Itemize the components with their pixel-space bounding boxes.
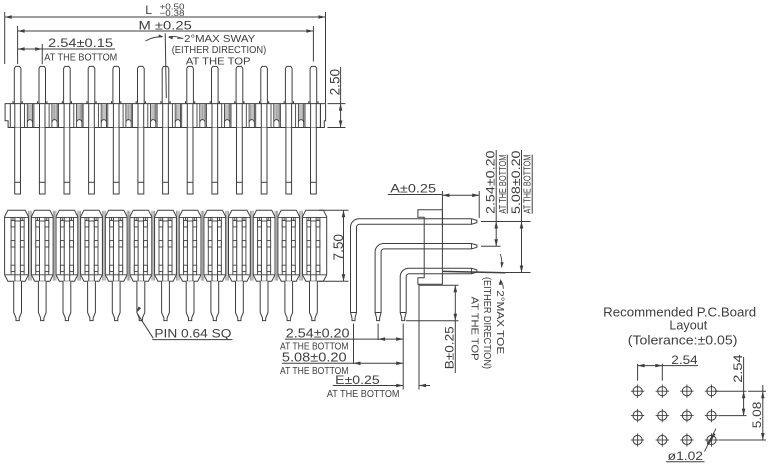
svg-text:AT THE BOTTOM: AT THE BOTTOM [44, 52, 117, 63]
view2 lower pin 8 [186, 281, 194, 320]
dim B line [454, 285, 456, 373]
svg-text:−0.38: −0.38 [160, 8, 185, 18]
view2 lower pin 4 [88, 281, 96, 320]
view1 lower pin 10 [237, 128, 243, 195]
view3 bent pin row 2 [375, 244, 477, 321]
view2 lower pin 2 [38, 281, 46, 320]
view2 housing segment 3 [56, 210, 78, 281]
svg-text:PIN 0.64 SQ: PIN 0.64 SQ [154, 327, 231, 341]
sway right arc leader [169, 36, 183, 38]
view3 bottom ext body [418, 284, 420, 389]
dim row1-row2 note underline [506, 155, 508, 214]
view2 housing segment 10 [229, 210, 251, 281]
view1 swayed pin outline [165, 33, 166, 98]
svg-text:E±0.25: E±0.25 [335, 373, 380, 387]
dim M line [18, 30, 314, 32]
dim 2.54±0.15 line [18, 48, 115, 50]
toe upper arc [500, 254, 502, 267]
view1 lower pin 13 [311, 128, 317, 195]
view3 bottom ext pin3 [402, 324, 404, 390]
svg-text:AT THE BOTTOM: AT THE BOTTOM [327, 389, 400, 400]
view1 upper pin 3 [64, 66, 71, 103]
view2 housing segment 5 [105, 210, 127, 281]
pcb dim 2.54 vert ext [715, 390, 747, 392]
view2 lower pin 11 [260, 281, 268, 320]
svg-text:2.50: 2.50 [327, 69, 342, 96]
view1 upper pin 8 [187, 66, 194, 103]
view1 lower pin 1 [15, 128, 21, 195]
view1 lower pin 7 [163, 128, 169, 195]
view2 lower pin 3 [63, 281, 71, 320]
view3 bent pin row 1 [351, 219, 477, 321]
dim E line [333, 385, 403, 387]
svg-text:2.54: 2.54 [731, 354, 745, 383]
view1 upper pin 9 [212, 66, 219, 103]
view1 lower pin 2 [39, 128, 45, 195]
pcb hole underline [666, 461, 705, 463]
view2 lower pin 10 [236, 281, 244, 320]
dim bottom 2.54 line [285, 338, 403, 340]
view1 insulator body outline [5, 104, 326, 128]
view2 housing segment 13 [303, 210, 327, 281]
view3 right ext row1 [481, 221, 531, 223]
svg-text:(Tolerance:±0.05): (Tolerance:±0.05) [628, 334, 738, 348]
view1 upper pin 5 [113, 66, 120, 103]
sway left arc [146, 37, 163, 41]
svg-text:L: L [145, 3, 152, 17]
view2 housing segment 11 [253, 210, 275, 281]
view1 upper pin 10 [236, 66, 243, 103]
view1 body cell walls [13, 101, 320, 127]
view2 housing segment 4 [81, 210, 103, 281]
svg-text:2.54±0.15: 2.54±0.15 [48, 36, 113, 50]
svg-text:5.08±0.20: 5.08±0.20 [282, 350, 347, 364]
dim A line [388, 194, 442, 196]
svg-text:5.08: 5.08 [750, 402, 764, 429]
dim L extension lines [4, 12, 6, 64]
pin size leader [138, 314, 154, 338]
view1 lower pin 4 [89, 128, 95, 195]
svg-text:(EITHER DIRECTION): (EITHER DIRECTION) [172, 44, 267, 56]
view1 upper pin 7 [162, 66, 169, 103]
toe lower arc [501, 281, 504, 289]
view3 bottom ext pin2 [377, 324, 379, 341]
svg-text:2°MAX TOE: 2°MAX TOE [494, 290, 506, 354]
view1 upper pin 6 [138, 66, 145, 103]
dim B bottom extension [406, 320, 459, 322]
svg-text:5.08±0.20: 5.08±0.20 [509, 150, 523, 214]
svg-text:2.54±0.20: 2.54±0.20 [286, 326, 350, 340]
view1 upper pin 2 [39, 66, 46, 103]
dim B top extension [419, 284, 459, 286]
view1 lower pin 11 [261, 128, 267, 195]
view1 lower pin 9 [212, 128, 218, 195]
dim M extension lines [17, 26, 19, 64]
dim L line [5, 16, 326, 18]
view1 lower pin 12 [286, 128, 292, 195]
view1 body inter-cell notches [27, 104, 303, 128]
view1 lower pin 5 [113, 128, 119, 195]
pcb dim 2.54 horiz line [638, 365, 698, 367]
view3 bottom ext pin1 [353, 324, 355, 365]
view3 right ext row2 [481, 245, 501, 247]
view3 pin row 2 shoulder [375, 312, 381, 314]
view2 housing segment 12 [278, 210, 300, 281]
svg-text:AT THE TOP: AT THE TOP [186, 55, 251, 67]
svg-text:A±0.25: A±0.25 [390, 182, 436, 196]
pcb pad grid [631, 385, 718, 447]
view2 lower pin 6 [137, 281, 145, 320]
view1 lower pin 3 [64, 128, 70, 195]
view2 housing segment 7 [155, 210, 177, 281]
view3 insulator body [418, 210, 443, 285]
view1 upper pin 11 [261, 66, 268, 103]
svg-text:Layout: Layout [669, 319, 707, 333]
dim row1-row3 note underline [531, 155, 533, 214]
svg-text:(EITHER DIRECTION): (EITHER DIRECTION) [481, 277, 493, 369]
svg-text:M ±0.25: M ±0.25 [139, 19, 192, 33]
dim 2.50 extension lines [328, 103, 346, 105]
view2 lower pin 1 [14, 281, 22, 320]
pcb hole leader [705, 428, 717, 451]
dim row1-row3 line [521, 150, 523, 273]
view1 body left end wall [9, 104, 11, 128]
dim row1-row2 line [495, 150, 497, 246]
view2 lower pin 12 [285, 281, 293, 320]
view2 housing segment 9 [204, 210, 226, 281]
pcb dim 5.08 ext [748, 390, 766, 392]
pcb dim 2.54 vert line [743, 357, 745, 416]
svg-text:AT THE TOP: AT THE TOP [468, 297, 480, 361]
pcb dim 5.08 line [762, 385, 764, 440]
svg-text:B±0.25: B±0.25 [443, 326, 457, 369]
dim 2.50 line [340, 67, 342, 128]
view2 lower pin 7 [162, 281, 170, 320]
view2 lower pin 9 [211, 281, 219, 320]
view1 lower pin 6 [138, 128, 144, 195]
svg-text:7.50: 7.50 [331, 234, 346, 261]
view2 lower pin 13 [310, 281, 318, 320]
view2 housing segment 1 [5, 210, 29, 281]
view3 toe pin line [443, 271, 505, 272]
dim bottom 5.08 line [282, 362, 403, 364]
view2 lower pin 5 [112, 281, 120, 320]
dim 7.50 line [343, 210, 345, 281]
view1 upper pin 4 [88, 66, 95, 103]
svg-text:2.54±0.20: 2.54±0.20 [484, 150, 498, 214]
svg-text:2.54: 2.54 [671, 353, 698, 367]
view1 upper pin 13 [310, 66, 317, 103]
svg-text:ø1.02: ø1.02 [668, 449, 703, 463]
view3 bent pin row 3 [400, 268, 477, 320]
view3 right ext row3 [481, 272, 531, 274]
dim A extension lines [441, 191, 443, 227]
view1 body right end wall [320, 104, 322, 128]
view3 pin row 1 shoulder [351, 312, 357, 314]
view2 housing segment 8 [179, 210, 201, 281]
dim 2.54±0.15 extension line [41, 44, 43, 64]
view2 housing segment 2 [31, 210, 53, 281]
dim 7.50 extension lines [319, 209, 349, 211]
pin size underline [152, 339, 232, 341]
view3 pin row 3 shoulder [400, 312, 406, 314]
view2 housing segment 6 [130, 210, 152, 281]
view2 rear row shading [29, 211, 303, 281]
view1 upper pin 1 [14, 66, 21, 103]
view1 lower pin 8 [187, 128, 193, 195]
pcb dim 2.54 horiz ext [637, 364, 639, 381]
svg-text:Recommended P.C.Board: Recommended P.C.Board [603, 306, 756, 320]
view1 upper pin 12 [285, 66, 292, 103]
